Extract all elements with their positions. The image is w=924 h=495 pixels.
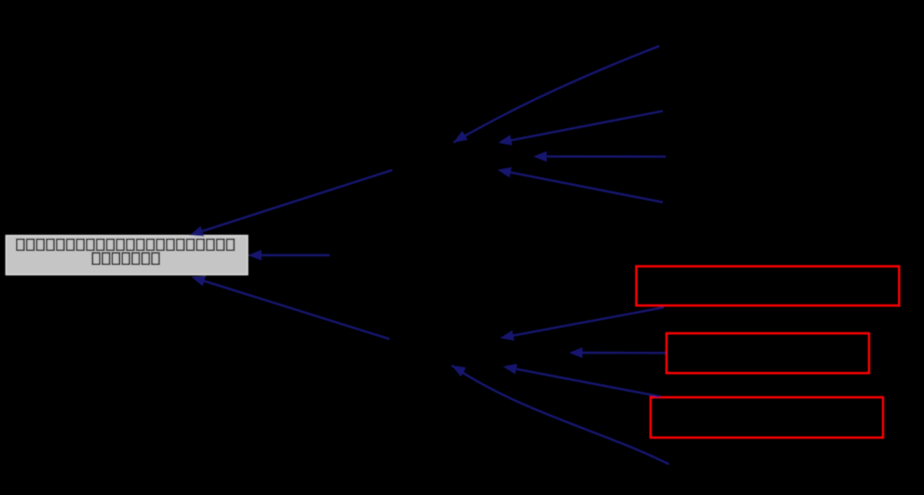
edge I: node R2 to node N3 (wire) xyxy=(569,347,666,358)
edge H: node R1 to node N3 (wire) xyxy=(500,308,664,341)
node MAIN label line 2 (missing-glyph boxes) xyxy=(93,253,160,264)
edge A: node N1 to node MAIN (wire) xyxy=(190,170,393,236)
node MAIN (gray filled function node) xyxy=(6,236,247,275)
node MAIN label line 1 (missing-glyph boxes) xyxy=(17,239,234,250)
edge E: fourth caller to node N1 (wire) xyxy=(497,167,662,202)
edge J: node R3 to node N3 (wire) xyxy=(503,364,660,397)
edge G: node N3 to node MAIN (wire) xyxy=(191,276,389,339)
edge K: bottom caller to node N3 (curved wire) xyxy=(452,366,669,465)
edge C: second caller to node N1 (wire) xyxy=(498,111,663,146)
node R1 (red truncated node, top) xyxy=(636,266,899,305)
node R2 (red truncated node, middle) xyxy=(667,333,870,373)
edge B: top caller to node N1 (curved wire) xyxy=(454,46,660,143)
edge F: node N2 to node MAIN (wire) xyxy=(248,250,330,261)
node R3 (red truncated node, bottom) xyxy=(651,397,883,437)
edge D: third caller to node N1 (wire) xyxy=(533,151,666,162)
